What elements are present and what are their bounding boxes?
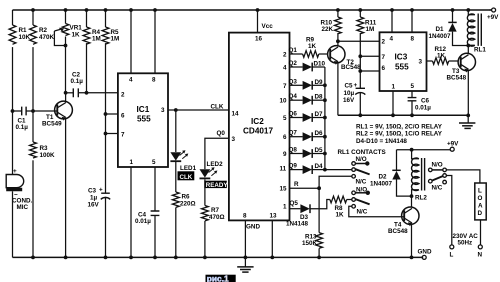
wire T4 collector [411, 196, 413, 207]
wire IC2 pin16 Vcc [257, 10, 259, 33]
node T2 collector [336, 39, 340, 43]
diode D2 [370, 150, 412, 196]
svg-text:11: 11 [280, 166, 287, 173]
svg-text:3: 3 [161, 107, 165, 114]
wire T2 collector to IC3 pin2 [338, 40, 380, 42]
diode D7 [289, 111, 325, 122]
node R4 bottom on pin2 wire [85, 91, 89, 95]
svg-text:D4: D4 [315, 163, 324, 170]
wire down to LED1 [175, 110, 177, 152]
svg-text:N/C: N/C [432, 185, 443, 192]
svg-text:Q3: Q3 [289, 78, 298, 85]
svg-text:BC548: BC548 [341, 64, 361, 71]
svg-text:10: 10 [280, 98, 288, 105]
svg-text:555: 555 [137, 115, 151, 124]
node R junction [317, 186, 321, 190]
svg-text:7: 7 [121, 132, 125, 139]
+9V terminal right [447, 141, 459, 152]
wire RL2 top to +9V [397, 149, 451, 151]
svg-text:16: 16 [255, 36, 263, 43]
node R7 bottom [203, 256, 207, 260]
svg-text:Q4: Q4 [289, 93, 298, 100]
node T1 collector / VR1 / C2 [64, 91, 68, 95]
node bus D9 [323, 83, 327, 87]
svg-text:R3: R3 [40, 145, 49, 152]
node T4 emitter bottom [410, 256, 414, 260]
LED2 [200, 161, 224, 178]
svg-text:3: 3 [232, 136, 236, 143]
svg-text:0.1µ: 0.1µ [16, 124, 29, 131]
wire T2 collector stub [337, 41, 339, 46]
svg-text:Q2: Q2 [289, 60, 298, 67]
LED1 [170, 150, 196, 172]
wire R to N/C pair1 [319, 176, 352, 188]
svg-text:1K: 1K [336, 212, 345, 219]
svg-text:R: R [294, 181, 299, 188]
resistor R11 [357, 10, 377, 88]
svg-text:D10: D10 [314, 61, 326, 68]
wire IC1 pin1 to ground rail [130, 167, 132, 257]
capacitor C6 [408, 91, 432, 115]
node pin6 junction [358, 69, 362, 73]
svg-text:1M: 1M [366, 26, 375, 33]
svg-text:RL1: RL1 [474, 47, 486, 54]
svg-text:1: 1 [392, 84, 396, 91]
svg-text:5: 5 [152, 159, 156, 166]
node pin1 ground [391, 113, 395, 117]
diode D9 [289, 78, 325, 89]
svg-text:16V: 16V [88, 202, 100, 209]
svg-text:10µ: 10µ [344, 90, 355, 97]
diode D10 [289, 60, 326, 71]
node RL1 bottom [466, 44, 470, 48]
svg-text:2: 2 [283, 52, 287, 59]
svg-text:8: 8 [152, 77, 156, 84]
svg-text:50Hz: 50Hz [458, 240, 473, 247]
capacitor C2 [66, 72, 118, 98]
svg-text:Q7: Q7 [289, 130, 298, 137]
potentiometer VR1 [54, 10, 82, 93]
wire Q5 row [290, 208, 301, 210]
svg-text:D1: D1 [436, 26, 445, 33]
wire IC2 pin8 to ground [244, 220, 246, 257]
wire Q1 to R9 [290, 53, 303, 55]
wire Q0 from IC2 pin3 to LED2 [205, 138, 229, 169]
svg-text:5: 5 [283, 115, 287, 122]
svg-text:R7: R7 [211, 207, 220, 214]
node R6 bottom [174, 256, 178, 260]
node C6 ground [410, 113, 414, 117]
svg-text:L: L [450, 252, 454, 259]
wire LED1 to R6 [175, 161, 177, 192]
svg-text:13: 13 [270, 213, 278, 220]
diode D6 [289, 130, 325, 141]
svg-text:555: 555 [395, 63, 409, 72]
svg-text:3: 3 [419, 59, 423, 66]
node C1 left junction [11, 109, 15, 113]
diode D8 [289, 93, 325, 104]
svg-text:1: 1 [130, 159, 134, 166]
svg-text:6: 6 [283, 134, 287, 141]
svg-text:N/O: N/O [356, 156, 367, 163]
svg-text:1M: 1M [92, 36, 101, 43]
svg-text:IC3: IC3 [395, 53, 408, 62]
transistor T4 [388, 207, 419, 235]
svg-text:16V: 16V [343, 97, 355, 104]
svg-text:BC549: BC549 [42, 121, 62, 128]
node pin7 junction [104, 132, 108, 136]
svg-text:1M: 1M [111, 36, 120, 43]
node bus D6 [323, 135, 327, 139]
node R13 bottom [317, 256, 321, 260]
relay spec text [356, 123, 443, 145]
wire R pin15 [290, 187, 320, 189]
svg-text:RL1 CONTACTS: RL1 CONTACTS [338, 149, 386, 156]
wire base node to T1 [33, 110, 57, 112]
svg-text:R2: R2 [39, 27, 48, 34]
wire bottom ground rail [13, 256, 424, 258]
resistor R7 [201, 206, 224, 258]
capacitor C1 [13, 107, 34, 131]
transistor T2 [328, 46, 361, 72]
svg-text:8: 8 [411, 35, 415, 42]
IC2 CD4017 box [229, 33, 290, 231]
svg-text:CLK: CLK [211, 104, 224, 111]
svg-text:2: 2 [121, 92, 125, 99]
svg-text:Q5: Q5 [290, 200, 299, 207]
wire D4 row to RL1 pole1 [325, 169, 352, 171]
node T3 emitter ground [466, 114, 470, 118]
svg-text:CLK: CLK [180, 174, 193, 181]
wire T3 emitter down [467, 71, 469, 116]
condenser mic [6, 168, 32, 211]
svg-text:VR1: VR1 [70, 25, 83, 32]
svg-text:MIC: MIC [17, 204, 29, 211]
svg-text:Vсс: Vсс [262, 23, 274, 30]
svg-text:N/C: N/C [356, 179, 367, 186]
svg-text:D7: D7 [315, 111, 324, 118]
svg-text:14: 14 [232, 111, 240, 118]
label box READY [204, 181, 228, 189]
svg-text:Q6: Q6 [289, 111, 298, 118]
node CLK junction [174, 108, 178, 112]
svg-text:1N4007: 1N4007 [370, 181, 393, 188]
svg-text:0.01µ: 0.01µ [135, 218, 151, 225]
svg-text:R6: R6 [182, 194, 191, 201]
wire CLK from IC1 pin3 to IC2 pin14 [168, 109, 229, 111]
node R11 top [358, 8, 362, 12]
resistor R3 [30, 111, 55, 257]
wire IC3 pin1 to ground rail [392, 91, 394, 115]
svg-text:D: D [478, 210, 483, 217]
resistor R8 [330, 196, 352, 218]
svg-text:1N4148: 1N4148 [286, 221, 309, 228]
svg-text:+: + [13, 168, 17, 175]
wire R4 to pin2 wire [86, 43, 88, 93]
svg-text:рис.1: рис.1 [207, 273, 229, 282]
node C4 bottom [153, 256, 157, 260]
svg-text:LED1: LED1 [180, 165, 197, 172]
svg-text:Q1: Q1 [289, 47, 298, 54]
wire +9V top rail [13, 9, 492, 11]
wire IC1 pin6 [106, 113, 118, 115]
resistor R1 [9, 10, 30, 44]
node R3 bottom [31, 256, 35, 260]
+9V terminal top right [487, 8, 499, 21]
transistor T3 [447, 53, 476, 81]
svg-text:15: 15 [280, 186, 288, 193]
svg-text:D9: D9 [315, 79, 324, 86]
node pin6 junction [104, 112, 108, 116]
wire IC3 pin8 [411, 10, 413, 32]
node IC2 pin16 top [256, 8, 260, 12]
N terminal [478, 245, 483, 259]
capacitor C4 [135, 167, 159, 257]
wire middle ground rail [338, 114, 468, 116]
op-amp IC1 555 box [118, 73, 168, 167]
svg-text:C6: C6 [421, 98, 430, 105]
node IC3 pin4 top [390, 8, 394, 12]
op-amp IC3 555 box [380, 32, 427, 91]
wire IC1 pin7 [106, 133, 118, 135]
svg-text:READY: READY [206, 182, 229, 189]
resistor R5 [102, 10, 119, 44]
wire IC3 pin6 [360, 70, 379, 72]
svg-text:+: + [354, 82, 358, 89]
node C5 bottom [358, 113, 362, 117]
svg-text:IC2: IC2 [251, 117, 264, 126]
node IC1 pin4 top [129, 8, 133, 12]
node pin7 junction [358, 54, 362, 58]
svg-text:150K: 150K [302, 240, 318, 247]
node R10 top [336, 8, 340, 12]
svg-text:D4-D10 = 1N4148: D4-D10 = 1N4148 [356, 138, 407, 145]
wire R2 to base node [32, 47, 34, 111]
wire R5 down to pins 6,7 and C3 [105, 43, 107, 193]
node bus D4 [323, 168, 327, 172]
RL1 contact pair 1 [352, 156, 370, 186]
wire IC2 pin13 to ground [271, 220, 273, 257]
resistor R4 [83, 10, 101, 44]
svg-text:N/C: N/C [357, 208, 368, 215]
svg-text:2: 2 [382, 39, 386, 46]
svg-text:CD4017: CD4017 [243, 127, 273, 136]
svg-text:D6: D6 [315, 130, 324, 137]
svg-text:Q8: Q8 [289, 147, 298, 154]
svg-text:4: 4 [283, 65, 287, 72]
svg-text:470Ω: 470Ω [209, 214, 225, 221]
svg-text:GND: GND [418, 249, 432, 256]
relay coil RL1 [467, 10, 486, 54]
resistor R10 [321, 10, 342, 41]
svg-text:+9V: +9V [487, 14, 499, 21]
wire T1 emitter down [65, 118, 67, 258]
node pin1 bottom [129, 256, 133, 260]
capacitor C5 electrolytic [343, 82, 365, 115]
svg-text:D2: D2 [379, 174, 388, 181]
wire T1 collector up [65, 93, 67, 103]
svg-text:IC1: IC1 [137, 105, 150, 114]
wire IC3 pin7 [360, 55, 379, 57]
node RL2 top [410, 148, 414, 152]
svg-text:Q0: Q0 [217, 130, 226, 137]
svg-text:RL1 = 9V, 150Ω, 2C/O RELAY: RL1 = 9V, 150Ω, 2C/O RELAY [356, 123, 443, 130]
diode D1 [429, 10, 469, 46]
svg-text:470K: 470K [39, 34, 55, 41]
svg-text:N: N [478, 252, 483, 259]
wire R down to R13 [318, 188, 320, 232]
svg-text:D5: D5 [315, 147, 324, 154]
svg-text:7: 7 [283, 83, 287, 90]
RL2 contacts [429, 162, 480, 245]
node A junction R2 top [31, 8, 35, 12]
svg-text:C5: C5 [345, 83, 354, 90]
diode D3 [286, 200, 330, 228]
GND terminal bottom [418, 249, 432, 260]
svg-text:220Ω: 220Ω [180, 201, 196, 208]
svg-text:0.01µ: 0.01µ [415, 105, 431, 112]
svg-text:L: L [478, 188, 482, 195]
ground symbol T3 [459, 115, 475, 128]
node R5 top [104, 8, 108, 12]
wire R1 to mic [12, 47, 14, 174]
RL1 contact pair 2 [349, 186, 405, 216]
relay coil RL2 [412, 150, 428, 202]
node IC1 pin8 top [153, 8, 157, 12]
svg-text:6: 6 [121, 113, 125, 120]
L terminal [450, 245, 454, 259]
svg-text:1N4007: 1N4007 [429, 33, 452, 40]
transistor T1 [42, 101, 72, 127]
resistor R2 [30, 10, 55, 44]
wire mic to bottom rail [12, 191, 14, 257]
wire IC3 pin4 [391, 10, 393, 32]
svg-text:R1: R1 [19, 27, 28, 34]
svg-text:4: 4 [390, 35, 394, 42]
svg-text:22K: 22K [322, 26, 334, 33]
label box CLK [178, 171, 195, 181]
svg-text:D8: D8 [315, 94, 324, 101]
wire LED2 to R7 [204, 179, 206, 205]
svg-text:4: 4 [129, 77, 133, 84]
node IC3 pin8 top [410, 8, 414, 12]
svg-text:N/O: N/O [432, 162, 443, 169]
ground symbol bottom [237, 257, 253, 272]
svg-text:RL2 = 9V, 150Ω, 1C/O RELAY: RL2 = 9V, 150Ω, 1C/O RELAY [356, 131, 443, 138]
svg-text:9: 9 [283, 151, 287, 158]
node C3 bottom [104, 256, 108, 260]
svg-text:BC548: BC548 [447, 75, 467, 82]
LOAD box [475, 183, 486, 220]
resistor R6 [172, 192, 195, 257]
node R4 top [85, 8, 89, 12]
svg-text:1K: 1K [308, 43, 317, 50]
svg-text:LED2: LED2 [207, 161, 224, 168]
svg-text:GND: GND [246, 224, 260, 231]
wire IC1 pin8 [154, 10, 156, 73]
node VR1 top [64, 8, 68, 12]
wire T3 collector up [467, 46, 469, 54]
svg-text:7: 7 [382, 54, 386, 61]
svg-text:1K: 1K [72, 32, 81, 39]
node T1 emitter bottom [64, 256, 68, 260]
wire diode cathode bus [324, 67, 326, 170]
svg-text:RL2: RL2 [415, 195, 427, 202]
svg-text:6: 6 [382, 65, 386, 72]
node D1 top [451, 8, 455, 12]
node RL1 top [466, 8, 470, 12]
svg-text:A: A [478, 203, 483, 210]
svg-text:0.1µ: 0.1µ [71, 78, 84, 85]
svg-text:O: O [478, 195, 483, 202]
node bus D8 [323, 98, 327, 102]
resistor R12 [427, 46, 458, 64]
svg-text:Q9: Q9 [289, 163, 298, 170]
diode D5 [289, 147, 325, 158]
svg-text:1: 1 [283, 204, 287, 211]
node T4 collector [410, 194, 414, 198]
node base junction [31, 109, 35, 113]
resistor R9 [303, 37, 328, 58]
svg-text:+: + [99, 187, 103, 194]
svg-text:C3: C3 [88, 188, 97, 195]
svg-text:1µ: 1µ [90, 195, 98, 202]
node bus D7 [323, 116, 327, 120]
svg-text:1K: 1K [437, 53, 446, 60]
wire T4 emitter to rail [411, 224, 413, 257]
wire LOAD to N [480, 220, 482, 245]
svg-text:5: 5 [411, 83, 415, 90]
node pin13 bottom [270, 256, 274, 260]
diode D4 [289, 163, 325, 174]
resistor R13 [302, 233, 323, 258]
svg-text:8: 8 [243, 213, 247, 220]
node pin8 bottom [244, 256, 248, 260]
figure label box [206, 273, 236, 282]
wire IC1 pin4 [130, 10, 132, 73]
svg-text:BC548: BC548 [388, 228, 408, 235]
svg-text:100K: 100K [40, 152, 56, 159]
svg-text:+9V: +9V [447, 141, 459, 148]
capacitor C3 electrolytic [88, 187, 111, 258]
node bus D5 [323, 152, 327, 156]
wire T2 emitter to ground rail [337, 63, 339, 116]
